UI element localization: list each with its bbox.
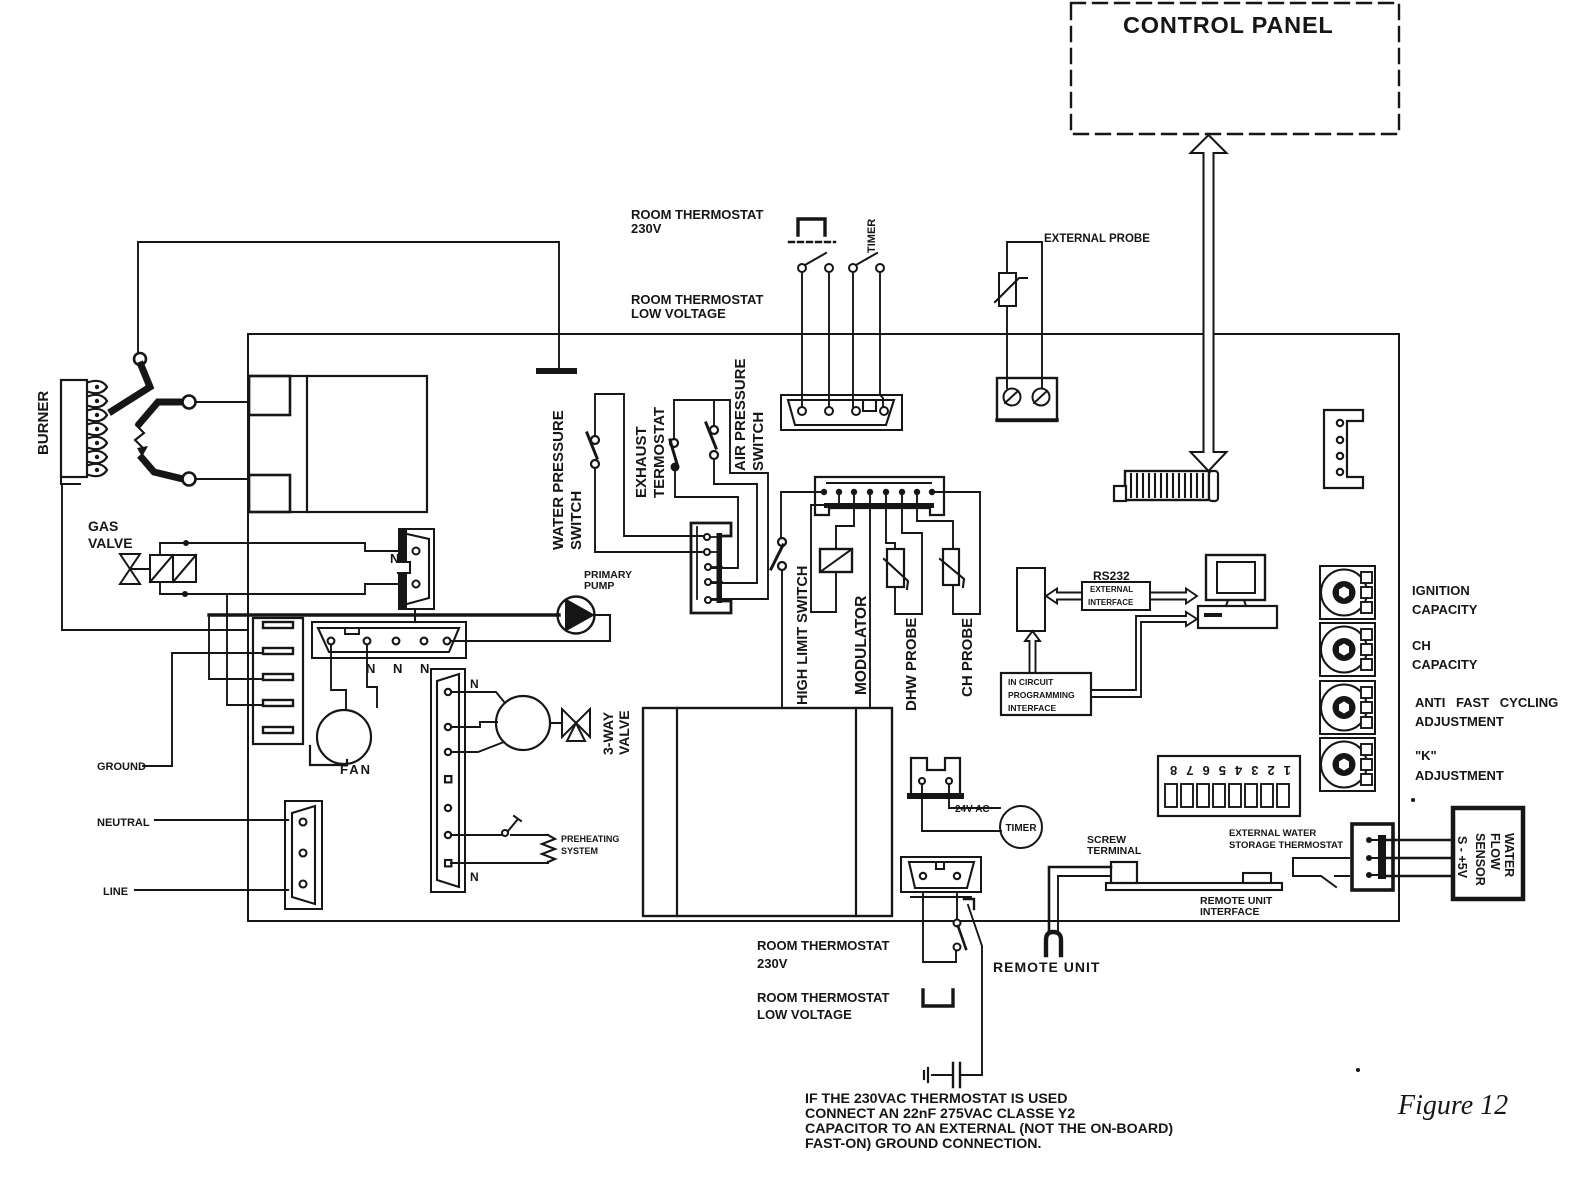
svg-text:INTERFACE: INTERFACE [1200, 906, 1260, 918]
svg-text:CONTROL PANEL: CONTROL PANEL [1123, 12, 1334, 38]
svg-text:ROOM THERMOSTAT: ROOM THERMOSTAT [757, 990, 889, 1005]
svg-text:S - +5V: S - +5V [1455, 836, 1469, 879]
svg-text:NEUTRAL: NEUTRAL [97, 817, 150, 829]
svg-text:SWITCH: SWITCH [750, 412, 767, 471]
svg-text:ADJUSTMENT: ADJUSTMENT [1415, 714, 1504, 729]
svg-text:INTERFACE: INTERFACE [1088, 598, 1134, 607]
svg-text:ADJUSTMENT: ADJUSTMENT [1415, 768, 1504, 783]
svg-text:STORAGE THERMOSTAT: STORAGE THERMOSTAT [1229, 840, 1343, 851]
svg-text:CONNECT AN 22nF 275VAC CLASSE: CONNECT AN 22nF 275VAC CLASSE Y2 [805, 1106, 1075, 1122]
svg-text:EXTERNAL PROBE: EXTERNAL PROBE [1044, 233, 1150, 245]
svg-text:VALVE: VALVE [88, 535, 133, 551]
svg-text:WATER PRESSURE: WATER PRESSURE [550, 410, 567, 550]
svg-text:BURNER: BURNER [35, 391, 52, 455]
svg-text:ROOM THERMOSTAT: ROOM THERMOSTAT [631, 292, 763, 307]
svg-text:RS232: RS232 [1093, 569, 1130, 583]
svg-text:N: N [470, 677, 479, 691]
svg-text:SYSTEM: SYSTEM [561, 846, 598, 856]
svg-text:24V AC: 24V AC [955, 804, 990, 815]
svg-text:HIGH LIMIT SWITCH: HIGH LIMIT SWITCH [795, 566, 811, 705]
svg-text:LOW VOLTAGE: LOW VOLTAGE [631, 306, 726, 321]
svg-text:N: N [390, 551, 399, 566]
svg-text:PROGRAMMING: PROGRAMMING [1008, 690, 1075, 700]
svg-text:EXTERNAL WATER: EXTERNAL WATER [1229, 828, 1316, 839]
svg-text:EXHAUST: EXHAUST [633, 426, 650, 498]
svg-text:FLOW: FLOW [1488, 833, 1502, 870]
svg-text:FAST-ON) GROUND CONNECTION.: FAST-ON) GROUND CONNECTION. [805, 1136, 1041, 1152]
svg-text:TIMER: TIMER [1005, 823, 1037, 834]
svg-text:LINE: LINE [103, 886, 128, 898]
svg-text:230V: 230V [631, 221, 662, 236]
svg-text:N: N [470, 870, 479, 884]
svg-text:CH: CH [1412, 638, 1431, 653]
svg-text:Figure 12: Figure 12 [1397, 1090, 1508, 1121]
svg-text:IGNITION: IGNITION [1412, 583, 1470, 598]
svg-text:SENSOR: SENSOR [1473, 833, 1487, 886]
svg-text:N: N [420, 661, 429, 676]
svg-text:PUMP: PUMP [584, 580, 614, 592]
svg-text:CH PROBE: CH PROBE [959, 618, 976, 697]
svg-text:GAS: GAS [88, 518, 118, 534]
svg-text:DHW PROBE: DHW PROBE [903, 618, 920, 711]
svg-text:SWITCH: SWITCH [568, 491, 585, 550]
svg-text:CAPACITOR TO AN EXTERNAL (NOT: CAPACITOR TO AN EXTERNAL (NOT THE ON-BOA… [805, 1121, 1173, 1137]
svg-text:CAPACITY: CAPACITY [1412, 657, 1478, 672]
svg-text:REMOTE UNIT: REMOTE UNIT [993, 959, 1100, 975]
svg-text:GROUND: GROUND [97, 761, 146, 773]
svg-text:TERMINAL: TERMINAL [1087, 845, 1142, 857]
svg-text:CAPACITY: CAPACITY [1412, 602, 1478, 617]
svg-text:N: N [366, 661, 375, 676]
svg-text:FAN: FAN [340, 762, 372, 777]
svg-text:INTERFACE: INTERFACE [1008, 703, 1057, 713]
svg-text:ANTI FAST CYCLING: ANTI FAST CYCLING [1415, 695, 1558, 710]
svg-text:230V: 230V [757, 956, 788, 971]
svg-text:TIMER: TIMER [866, 219, 878, 253]
svg-text:IF THE 230VAC THERMOSTAT IS US: IF THE 230VAC THERMOSTAT IS USED [805, 1091, 1068, 1107]
svg-text:ROOM THERMOSTAT: ROOM THERMOSTAT [757, 938, 889, 953]
svg-text:12345678: 12345678 [1161, 763, 1291, 778]
svg-text:3-WAY: 3-WAY [600, 711, 616, 755]
svg-text:LOW VOLTAGE: LOW VOLTAGE [757, 1007, 852, 1022]
svg-text:WATER: WATER [1502, 833, 1516, 877]
svg-text:VALVE: VALVE [616, 710, 632, 755]
svg-text:AIR PRESSURE: AIR PRESSURE [732, 358, 749, 471]
svg-text:MODULATOR: MODULATOR [853, 596, 870, 695]
svg-text:EXTERNAL: EXTERNAL [1090, 585, 1133, 594]
svg-text:ROOM THERMOSTAT: ROOM THERMOSTAT [631, 207, 763, 222]
svg-text:"K": "K" [1415, 748, 1437, 763]
svg-text:IN CIRCUIT: IN CIRCUIT [1008, 677, 1054, 687]
svg-text:TERMOSTAT: TERMOSTAT [651, 407, 668, 498]
svg-text:PREHEATING: PREHEATING [561, 834, 619, 844]
svg-text:N: N [393, 661, 402, 676]
